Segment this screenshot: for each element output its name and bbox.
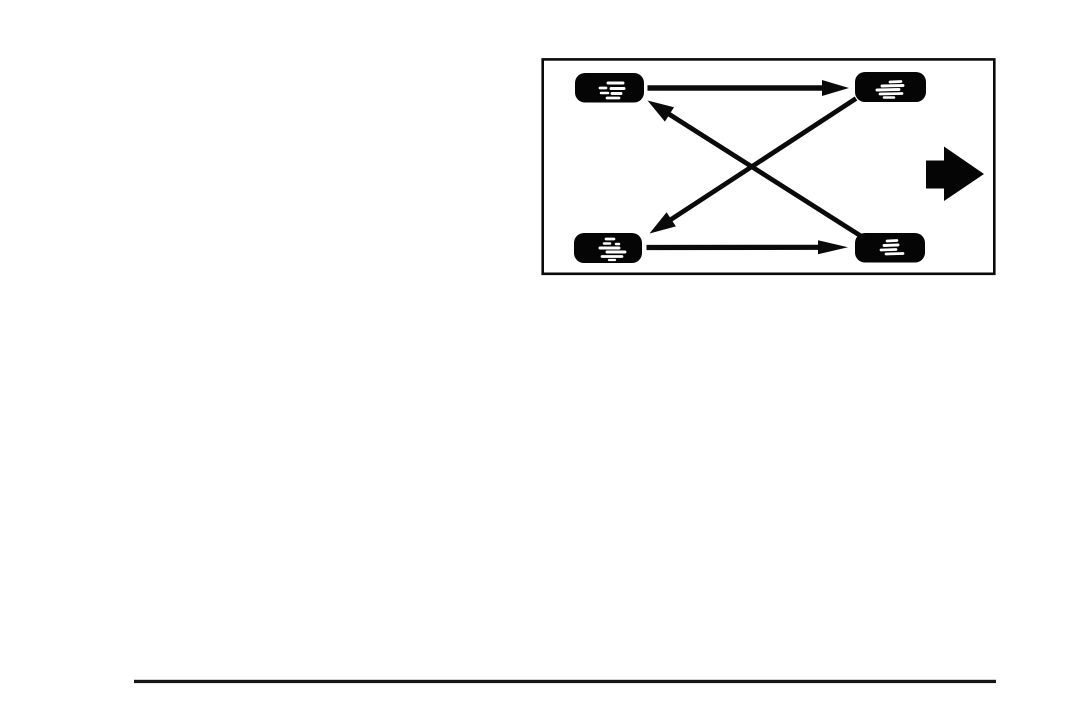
diagram frame	[543, 59, 995, 273]
tire bottom-right	[855, 233, 925, 263]
arrow bottom-right to top-left (diagonal, head up-left)	[648, 101, 865, 239]
footer rule	[134, 680, 996, 683]
arrow top-right to bottom-left (diagonal, head down-left)	[650, 99, 857, 234]
tire front-left (top-left)	[575, 73, 644, 103]
tire rear-right-of-top (top-right)	[855, 72, 926, 102]
arrow top-left to top-right	[648, 80, 850, 96]
tread scribble top-right	[877, 82, 903, 98]
tread scribble bottom-left	[600, 239, 625, 260]
arrow bottom-left to bottom-right	[647, 240, 849, 254]
block arrow (vehicle front direction)	[926, 147, 984, 202]
tire bottom-left	[574, 233, 642, 263]
tread scribble top-left	[600, 83, 624, 98]
tread scribble bottom-right	[881, 241, 903, 255]
